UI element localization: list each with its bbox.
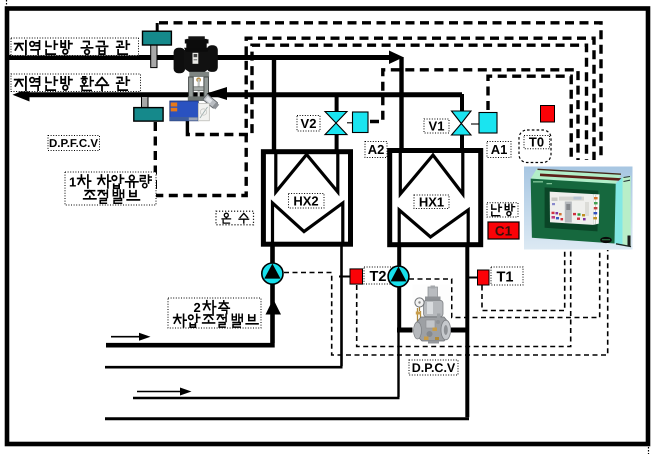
svg-text:D.P.C.V: D.P.C.V: [412, 361, 456, 375]
valve V2 actuator link: [347, 122, 353, 124]
label: HX2: [289, 194, 325, 209]
wire: supply sensor to panel, top run: [159, 23, 601, 160]
heat exchanger HX1 bottom coil: [399, 210, 468, 244]
label: V1: [424, 119, 449, 134]
arrowheads on pipes: [13, 51, 404, 396]
yoke columns: [189, 77, 194, 97]
pump P1: [262, 263, 283, 284]
label: C1 (red): [488, 222, 519, 239]
heat exchanger HX1 box: [390, 151, 481, 245]
wire: T1 tap: [468, 277, 478, 279]
wire: T1 to panel: [482, 250, 565, 311]
actuator blue box: [170, 101, 199, 121]
svg-text:A2: A2: [368, 142, 385, 157]
wire: DH sensor loop outer: [155, 38, 594, 195]
valve V1 actuator: [479, 113, 497, 134]
svg-text:T2: T2: [370, 269, 387, 285]
yoke crossbar: [193, 87, 203, 91]
inner screen bezel: [545, 187, 599, 231]
label: T2: [364, 267, 396, 285]
wire: V2 actuator to panel: [370, 70, 578, 160]
right flange: [441, 320, 451, 340]
valve collar band: [189, 72, 209, 77]
svg-text:V1: V1: [429, 119, 445, 134]
heat exchanger HX2 top coil: [276, 152, 338, 192]
label: 2차측 차압조절밸브: [168, 298, 261, 328]
device right side: mint strip: [623, 176, 631, 247]
arrow: supply flow right: [389, 51, 404, 65]
sensor box lower (teal): [134, 108, 163, 122]
corner dotted artifact top-left: [6, 0, 8, 6]
label: D.P.F.C.V: [48, 136, 100, 151]
label: 온 수: [216, 211, 254, 225]
sensor stem lower: [142, 97, 149, 108]
wire: pump2 to panel: [409, 250, 600, 318]
label: D.P.C.V: [409, 360, 458, 375]
valve body: center mass: [184, 47, 210, 73]
wire: return drop through V2 to HX2 right: [335, 94, 339, 112]
positioner silver cylinder (angled): [203, 94, 220, 110]
bezel label text: [533, 182, 552, 184]
label: A2: [365, 142, 387, 158]
svg-text:HX1: HX1: [419, 194, 444, 209]
valve body label tag: [193, 53, 199, 64]
label: A1: [487, 142, 511, 158]
device front bezel: [531, 179, 616, 244]
sensor stem upper: [151, 44, 157, 68]
label: V2: [297, 116, 320, 132]
wire: supply drop to HX2 left: [272, 57, 276, 153]
svg-text:C1: C1: [495, 224, 513, 239]
svg-text:2: 2: [194, 300, 201, 315]
svg-text:HX2: HX2: [293, 194, 318, 209]
valve body bottom: [416, 317, 449, 341]
svg-text:T1: T1: [497, 270, 514, 286]
wire: pump1 to panel: [284, 250, 608, 355]
label: 난방: [487, 203, 518, 217]
heat exchanger HX2 box: [263, 152, 350, 245]
gauge: [415, 298, 424, 307]
wire: HX2 right outlet down, left thin line: [105, 246, 343, 367]
label: 지역난방 환수 관: [11, 74, 141, 92]
arrow: return flow left (mid): [207, 87, 228, 100]
left flange: [414, 322, 422, 339]
arrow: bottom thin line flow right: [137, 391, 181, 393]
svg-text:A1: A1: [491, 142, 508, 157]
wire: V1 actuator to panel: [488, 76, 571, 160]
actuator small label: [189, 118, 198, 121]
wire: DPFCV actuator tick: [186, 120, 189, 129]
actuator orange tags: [171, 103, 178, 107]
pump P2: [388, 266, 409, 287]
svg-text:1: 1: [69, 175, 76, 190]
mid dome actuator: [424, 300, 444, 317]
arrow: return flow left (far left): [13, 88, 30, 102]
wire: supply drop to HX1 left: [399, 57, 403, 152]
wire: supply sensor tick: [156, 23, 159, 32]
valve body: left flange: [174, 48, 186, 73]
wire: pipe below DPCV junction left branch: [133, 330, 400, 398]
valve V2 bowtie: [325, 112, 347, 124]
label: T1: [491, 267, 523, 286]
corner dotted artifact bottom-right: [648, 447, 650, 454]
label: T0 rounded callout: [519, 130, 551, 163]
label: 1차 차압유량 조절밸브: [65, 172, 156, 205]
heat exchanger HX1 top coil: [400, 151, 463, 194]
logo: [600, 237, 612, 243]
white screen: [550, 192, 594, 225]
wire: DPFCV actuator loop inner: [187, 45, 586, 160]
heat exchanger HX2 bottom coil: [273, 203, 343, 243]
arrow: bottom thick pipe flow right: [111, 336, 140, 338]
valve body: right flange: [207, 45, 218, 72]
svg-text:V2: V2: [301, 116, 317, 131]
screen content: [565, 202, 572, 223]
wire: HX2 left outlet through pump1 down and left: [106, 244, 275, 345]
yoke stem: [198, 79, 200, 97]
yoke spring brass: [196, 77, 201, 82]
wire: HX1 right outlet down to bottom line: [465, 245, 469, 417]
wire: return drop through V1 to HX1 right: [460, 94, 464, 112]
top stem cylinder: [428, 287, 438, 297]
arrow: pump1 riser up: [266, 299, 282, 315]
valve V2 actuator: [353, 112, 369, 133]
top stacked bands: [531, 169, 622, 184]
brass tubes: [418, 308, 421, 338]
details: [426, 320, 435, 328]
yoke bottom bar: [188, 96, 210, 101]
wire: HX1 left outlet through pump2 to DPCV pipe: [397, 245, 401, 330]
indicator T1 square: [478, 270, 490, 285]
indicator T2 square: [350, 269, 363, 284]
indicator T0 square: [541, 106, 555, 123]
svg-text:D.P.F.C.V: D.P.F.C.V: [49, 138, 98, 150]
gauge chart white box: [198, 103, 209, 120]
wire: DH return pipe: [20, 92, 462, 97]
screen right strip: [593, 194, 599, 225]
wire: T2 to panel: [357, 250, 571, 347]
label: HX1: [414, 194, 449, 209]
valve V1 bowtie: [452, 111, 472, 124]
wire: DH supply pipe: [9, 55, 391, 60]
wire: T2 tap: [339, 276, 351, 278]
svg-text:T0: T0: [529, 135, 544, 150]
valve bonnet top: [186, 39, 206, 48]
wire: DPCV bypass pipe: [397, 328, 467, 333]
valve V1 actuator link: [471, 123, 479, 125]
collar flange: [425, 297, 441, 301]
label: 지역난방 공급 관: [11, 38, 139, 56]
sensor box upper (teal): [143, 31, 172, 45]
device right side: cyan strip: [615, 177, 623, 246]
